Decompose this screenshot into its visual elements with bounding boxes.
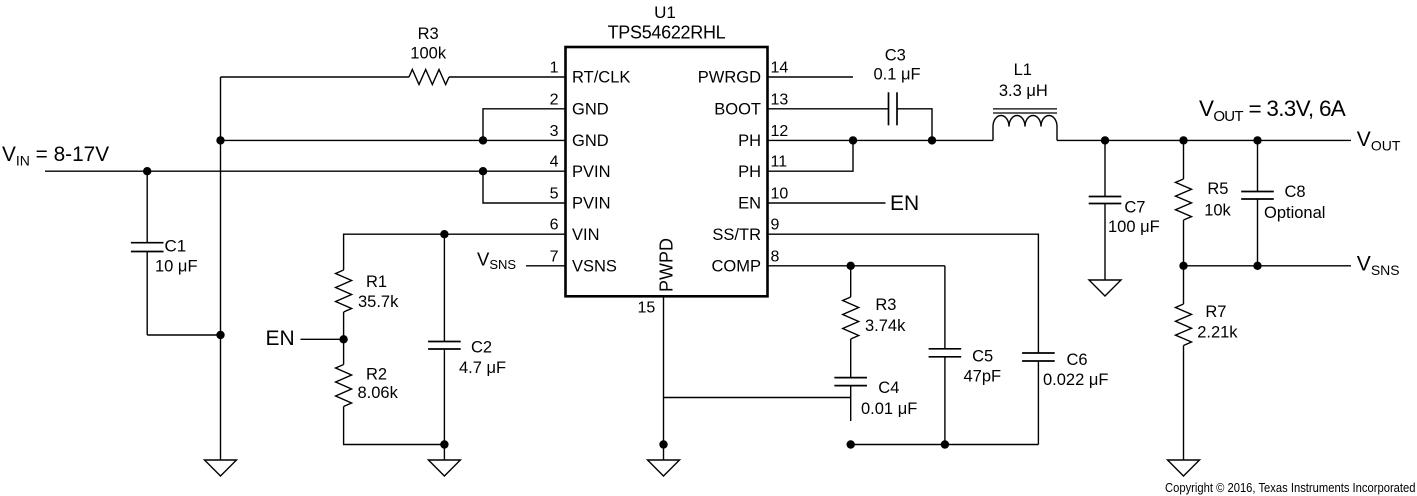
node VOUT/C7 junction xyxy=(1101,136,1109,144)
svg-text:12: 12 xyxy=(771,123,789,140)
svg-text:EN: EN xyxy=(890,192,919,215)
wire PWRGD pin 14 stub xyxy=(768,76,854,78)
svg-text:PVIN: PVIN xyxy=(572,195,611,213)
label C6 xyxy=(1067,351,1088,369)
svg-text:SS/TR: SS/TR xyxy=(712,226,761,244)
svg-text:VOUT = 3.3V, 6A: VOUT = 3.3V, 6A xyxy=(1199,96,1346,125)
svg-text:4: 4 xyxy=(550,154,559,171)
svg-text:C1: C1 xyxy=(165,237,187,256)
label 100k xyxy=(410,44,447,62)
label C8 xyxy=(1285,183,1306,201)
node pin15/ground junction xyxy=(659,440,667,448)
svg-text:4.7 μF: 4.7 μF xyxy=(459,359,506,377)
node VOUT/R5 junction xyxy=(1179,136,1187,144)
svg-text:Copyright © 2016, Texas Instru: Copyright © 2016, Texas Instruments Inco… xyxy=(1165,480,1416,495)
resistor R2 (8.06k) xyxy=(336,365,352,407)
svg-text:PH: PH xyxy=(738,132,761,150)
wire RT/CLK pin 1 to R3 xyxy=(449,76,566,78)
svg-text:9: 9 xyxy=(771,217,780,234)
label C1 xyxy=(165,237,187,256)
label 2.21k xyxy=(1197,324,1238,342)
svg-text:8.06k: 8.06k xyxy=(358,384,399,402)
label R1 xyxy=(366,273,387,291)
svg-text:R2: R2 xyxy=(366,365,387,383)
svg-text:10 μF: 10 μF xyxy=(155,257,198,275)
pin 8 COMP (right) xyxy=(712,248,780,275)
wire R3 bottom to C4 top xyxy=(850,339,852,378)
svg-text:10k: 10k xyxy=(1204,202,1231,220)
pin 1 RT/CLK (left) xyxy=(550,60,631,87)
svg-text:C3: C3 xyxy=(885,47,906,65)
svg-text:7: 7 xyxy=(550,248,559,265)
svg-text:3.3 μH: 3.3 μH xyxy=(999,82,1048,100)
label net VSNS (right) xyxy=(1357,253,1400,279)
svg-text:6: 6 xyxy=(550,217,559,234)
wire VOUT line xyxy=(1057,139,1351,141)
svg-text:VSNS: VSNS xyxy=(477,249,516,273)
node VSNS/C8 junction xyxy=(1253,262,1261,270)
wire pin 5 PVIN up to VIN line xyxy=(483,171,566,203)
svg-text:L1: L1 xyxy=(1014,61,1032,79)
label 100 uF xyxy=(1108,218,1160,236)
capacitor C2 (4.7 uF) xyxy=(428,234,461,444)
resistor R3 (100k) xyxy=(409,70,449,85)
label R5 xyxy=(1207,180,1228,198)
wire COMP pin 8 to C5 top xyxy=(768,265,945,267)
wire EN pin 10 stub xyxy=(768,202,886,204)
resistor R5 (10k) xyxy=(1176,179,1192,220)
svg-text:C4: C4 xyxy=(878,379,899,397)
pin 14 PWRGD (right) xyxy=(698,60,789,87)
svg-text:100 μF: 100 μF xyxy=(1108,218,1160,236)
label R7 xyxy=(1205,303,1226,321)
label 10k xyxy=(1204,202,1231,220)
wire R3 left to ground vertical xyxy=(221,76,410,78)
inductor L1 (3.3 uH) xyxy=(993,109,1057,140)
label Optional xyxy=(1264,204,1325,222)
label C5 xyxy=(972,347,993,365)
svg-text:C6: C6 xyxy=(1067,351,1088,369)
node VIN/PVIN pin5 junction xyxy=(479,167,487,175)
svg-text:2.21k: 2.21k xyxy=(1197,324,1238,342)
ground (pin 15) xyxy=(648,460,680,476)
capacitor C6 (0.022 uF) xyxy=(1022,353,1055,445)
node GND line / ground vertical junction xyxy=(216,136,224,144)
label U1 refdes xyxy=(654,3,676,22)
pin 15 number xyxy=(638,300,656,317)
svg-text:COMP: COMP xyxy=(712,258,762,276)
svg-text:0.01 μF: 0.01 μF xyxy=(861,400,917,418)
wire R7 bottom to ground xyxy=(1183,346,1185,461)
wire compensation ground rail xyxy=(851,444,1039,446)
label 10 uF xyxy=(155,257,198,275)
capacitor C7 (100 uF) xyxy=(1089,140,1122,280)
svg-text:PVIN: PVIN xyxy=(572,163,611,181)
svg-text:2: 2 xyxy=(550,91,559,108)
ground (feedback divider) xyxy=(1168,460,1200,476)
svg-text:R3: R3 xyxy=(875,296,896,314)
label net VSNS (pin 7) xyxy=(477,249,516,273)
svg-text:VSNS: VSNS xyxy=(572,258,617,276)
label L1 xyxy=(1014,61,1032,79)
wire VIN input line to pin 4 xyxy=(45,170,566,172)
svg-text:VIN = 8-17V: VIN = 8-17V xyxy=(2,143,109,169)
svg-text:R5: R5 xyxy=(1207,180,1228,198)
wire ground vertical (RT/CLK, GND, C1 to ground) xyxy=(220,77,222,460)
svg-text:3: 3 xyxy=(550,123,559,140)
wire pin 15 branch to C4 bottom xyxy=(664,397,851,399)
label net VOUT (right) xyxy=(1357,128,1401,154)
wire C3 right to PH line xyxy=(897,109,932,141)
node ground-rail left end xyxy=(847,440,855,448)
node pin2/pin3 GND junction xyxy=(479,136,487,144)
pin 15 PWPD label (rotated) xyxy=(656,238,676,292)
capacitor C4 (0.01 uF) xyxy=(834,378,867,421)
svg-text:C5: C5 xyxy=(972,347,993,365)
label C4 xyxy=(878,379,899,397)
label C7 xyxy=(1124,199,1145,217)
node EN/R1/R2 junction xyxy=(339,335,347,343)
wire SS/TR pin 9 to C6 xyxy=(768,234,1039,353)
label net EN (left) xyxy=(266,327,295,350)
label 35.7k xyxy=(358,293,399,311)
label 47pF xyxy=(964,368,1002,386)
svg-text:VOUT: VOUT xyxy=(1357,128,1401,154)
svg-text:R3: R3 xyxy=(418,25,439,43)
svg-text:0.022 μF: 0.022 μF xyxy=(1043,371,1108,389)
node VSNS/R5 junction xyxy=(1179,262,1187,270)
svg-text:35.7k: 35.7k xyxy=(358,293,399,311)
label 8.06k xyxy=(358,384,399,402)
wire C2 junction to ground xyxy=(443,445,445,461)
wire BOOT pin 13 to C3 xyxy=(768,108,889,110)
svg-text:VIN: VIN xyxy=(572,226,600,244)
pin 3 GND (left) xyxy=(550,123,609,150)
node COMP/R3 junction xyxy=(847,262,855,270)
svg-text:C2: C2 xyxy=(471,339,492,357)
pin 4 PVIN (left) xyxy=(550,154,611,181)
wire R1 bottom to R2 top xyxy=(343,312,345,365)
label 4.7 uF xyxy=(459,359,506,377)
svg-text:100k: 100k xyxy=(410,44,447,62)
svg-text:BOOT: BOOT xyxy=(714,101,761,119)
label TPS54622RHL xyxy=(608,22,726,42)
pin 7 VSNS (left) xyxy=(550,248,617,275)
resistor R3 (3.74k) xyxy=(843,297,859,339)
label 0.01 uF xyxy=(861,400,917,418)
label R2 xyxy=(366,365,387,383)
wire COMP junction down to R3 xyxy=(850,266,852,297)
pin 10 EN (right) xyxy=(738,186,788,213)
op-amp U1 TPS54622RHL box xyxy=(566,47,768,296)
label 0.022 uF xyxy=(1043,371,1108,389)
svg-text:C8: C8 xyxy=(1285,183,1306,201)
label copyright xyxy=(1165,480,1416,495)
svg-text:C7: C7 xyxy=(1124,199,1145,217)
node C1 bottom junction xyxy=(216,331,224,339)
svg-text:PWRGD: PWRGD xyxy=(698,69,761,87)
svg-text:14: 14 xyxy=(771,60,789,77)
wire PH pin 11 up to pin 12 line xyxy=(768,140,854,171)
node VOUT/C8 junction xyxy=(1253,136,1261,144)
resistor R7 (2.21k) xyxy=(1176,304,1192,346)
label 0.1 uF xyxy=(873,65,920,83)
svg-text:Optional: Optional xyxy=(1264,204,1325,222)
wire VSNS output line xyxy=(1184,265,1352,267)
svg-text:13: 13 xyxy=(771,91,789,108)
pin 12 PH (right) xyxy=(738,123,788,150)
wire R5 top xyxy=(1183,140,1185,179)
label VOUT = 3.3V, 6A xyxy=(1199,96,1346,125)
ground (input section) xyxy=(205,460,237,476)
svg-text:TPS54622RHL: TPS54622RHL xyxy=(608,22,726,42)
svg-text:RT/CLK: RT/CLK xyxy=(572,69,630,87)
label C2 xyxy=(471,339,492,357)
svg-text:3.74k: 3.74k xyxy=(865,317,906,335)
svg-text:PH: PH xyxy=(738,163,761,181)
pin 13 BOOT (right) xyxy=(714,91,788,118)
label R3 xyxy=(418,25,439,43)
wire R7 top xyxy=(1183,266,1185,304)
wire PH pin 12 line to L1 xyxy=(768,139,994,141)
svg-text:10: 10 xyxy=(771,186,789,203)
node C5/ground-rail junction xyxy=(941,440,949,448)
pin 11 PH (right) xyxy=(738,154,787,181)
svg-text:15: 15 xyxy=(638,300,656,317)
svg-text:1: 1 xyxy=(550,60,559,77)
label net VIN = 8-17V xyxy=(2,143,109,169)
label C3 xyxy=(885,47,906,65)
svg-text:47pF: 47pF xyxy=(964,368,1002,386)
node C2/ground junction xyxy=(440,440,448,448)
wire VSNS to pin 7 xyxy=(526,265,566,267)
node PH pins junction xyxy=(849,136,857,144)
label 3.3 uH xyxy=(999,82,1048,100)
svg-text:R1: R1 xyxy=(366,273,387,291)
capacitor C3 (0.1 uF) xyxy=(889,92,898,125)
svg-text:EN: EN xyxy=(266,327,295,350)
node VIN line / C2 junction xyxy=(440,230,448,238)
capacitor C8 (optional) xyxy=(1241,140,1274,265)
svg-text:U1: U1 xyxy=(654,3,676,22)
pin 5 PVIN (left) xyxy=(550,186,611,213)
pin 6 VIN (left) xyxy=(550,217,600,244)
pin 9 SS/TR (right) xyxy=(712,217,779,244)
label 3.74k xyxy=(865,317,906,335)
resistor R1 (35.7k) xyxy=(336,270,352,312)
wire R5 bottom to VSNS line xyxy=(1183,220,1185,266)
label net EN (right) xyxy=(890,192,919,215)
svg-text:GND: GND xyxy=(572,132,609,150)
capacitor C5 (47pF) xyxy=(929,266,962,445)
wire pin 15 to ground xyxy=(663,296,665,460)
svg-text:VSNS: VSNS xyxy=(1357,253,1400,279)
svg-text:0.1 μF: 0.1 μF xyxy=(873,65,920,83)
pin 2 GND (left) xyxy=(550,91,609,118)
wire R1 top to pin 6 VIN line xyxy=(344,234,566,270)
wire EN to R1/R2 divider xyxy=(301,338,344,340)
ground (C7 output) xyxy=(1089,280,1121,296)
label R3 (comp) xyxy=(875,296,896,314)
node VIN/C1 junction xyxy=(143,167,151,175)
svg-text:5: 5 xyxy=(550,186,559,203)
svg-text:EN: EN xyxy=(738,195,761,213)
svg-text:R7: R7 xyxy=(1205,303,1226,321)
wire pin 2 GND down to pin 3 line xyxy=(483,109,566,141)
svg-text:8: 8 xyxy=(771,248,780,265)
svg-text:GND: GND xyxy=(572,101,609,119)
svg-text:PWPD: PWPD xyxy=(656,238,676,292)
wire R2 bottom to C2 bottom xyxy=(344,407,445,445)
node C3/PH junction xyxy=(928,136,936,144)
ground (divider section) xyxy=(428,460,460,476)
svg-text:11: 11 xyxy=(771,154,788,171)
capacitor C1 (10 uF) xyxy=(131,171,221,335)
wire GND line to pin 3 xyxy=(221,139,566,141)
